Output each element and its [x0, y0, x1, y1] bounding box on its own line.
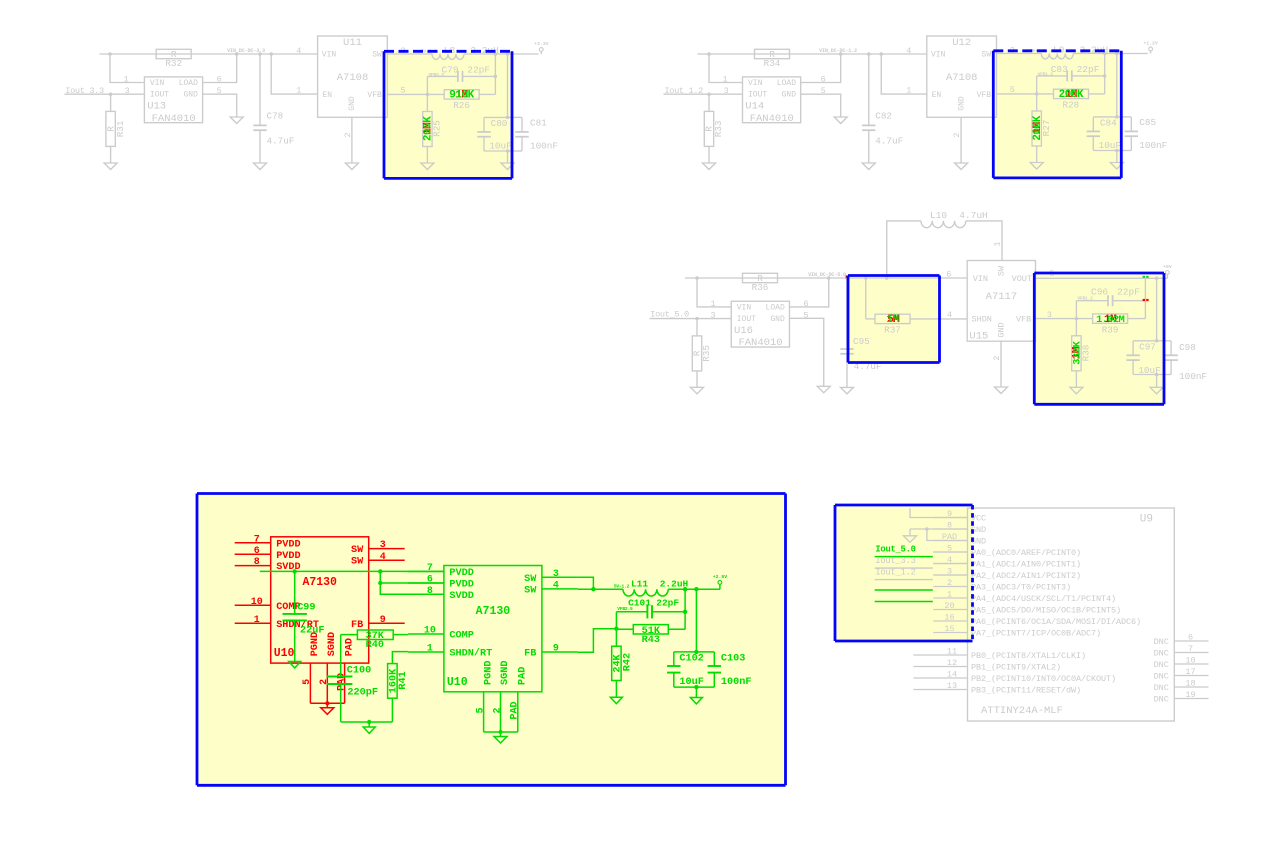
svg-text:VIN: VIN	[973, 274, 988, 284]
svg-text:GND: GND	[957, 96, 966, 111]
svg-text:PVDD: PVDD	[276, 551, 300, 562]
svg-text:A7130: A7130	[302, 576, 337, 589]
svg-text:1: 1	[710, 299, 715, 309]
U9 pin 5 PA0_(ADC0/AREF/PCINT0)	[933, 551, 967, 553]
svg-text:5: 5	[1010, 85, 1015, 95]
svg-text:C81: C81	[530, 118, 547, 129]
svg-text:10uF: 10uF	[489, 141, 511, 152]
ground below R42 (green)	[610, 697, 622, 703]
svg-text:PAD: PAD	[518, 667, 529, 685]
svg-text:C98: C98	[1179, 342, 1196, 353]
svg-text:2: 2	[952, 132, 962, 137]
svg-text:5V-1.2: 5V-1.2	[614, 584, 630, 590]
U9 pin 12 PB1_(PCINT9/XTAL2)	[914, 666, 968, 668]
svg-text:SW: SW	[997, 265, 1007, 276]
svg-text:1M: 1M	[886, 314, 899, 326]
svg-text:VFB1.2: VFB1.2	[1038, 72, 1054, 78]
IC U14 FAN4010 box	[743, 77, 801, 123]
svg-text:2: 2	[947, 578, 952, 588]
svg-text:SW: SW	[524, 585, 537, 596]
highlight box fill 2	[993, 51, 1121, 178]
wire SHDN pin 4	[910, 318, 967, 320]
bottom joint wire and ground (green)	[444, 566, 542, 692]
svg-text:PB1_(PCINT9/XTAL2): PB1_(PCINT9/XTAL2)	[971, 662, 1061, 672]
wire VCC pin 9	[910, 508, 968, 517]
capacitor C98 100nF	[1157, 340, 1172, 342]
svg-text:1: 1	[427, 644, 433, 655]
svg-text:FAN4010: FAN4010	[750, 113, 794, 125]
svg-text:PA4_(ADC4/USCK/SCL/T1/PCINT4): PA4_(ADC4/USCK/SCL/T1/PCINT4)	[971, 594, 1116, 604]
U9 pin 4 PA1_(ADC1/AIN0/PCINT1)	[933, 563, 967, 565]
svg-text:LOAD: LOAD	[179, 79, 198, 88]
ground at U13 pin 5	[230, 117, 243, 124]
ground below C82	[862, 163, 875, 170]
svg-text:U10: U10	[274, 647, 295, 660]
svg-text:PA5_(ADC5/DO/MISO/OC1B/PCINT5): PA5_(ADC5/DO/MISO/OC1B/PCINT5)	[971, 605, 1121, 615]
svg-text:4: 4	[380, 552, 386, 563]
svg-text:C97: C97	[1139, 342, 1156, 353]
svg-text:PA6_(PCINT6/OC1A/SDA/MOSI/DI/A: PA6_(PCINT6/OC1A/SDA/MOSI/DI/ADC6)	[971, 617, 1141, 627]
U15 GND pin wire	[1000, 341, 1002, 387]
svg-text:R28: R28	[1063, 100, 1080, 111]
svg-text:U9: U9	[1140, 514, 1153, 526]
diff markers green specks box4	[1143, 276, 1145, 278]
capacitor C80 10uF	[484, 116, 508, 118]
capacitor C101 22pF (green)	[684, 589, 686, 629]
U9 pin 8 GND	[933, 528, 967, 530]
svg-text:10: 10	[251, 597, 263, 608]
svg-text:FAN4010: FAN4010	[738, 337, 782, 349]
green wire at pin 1	[875, 601, 933, 603]
junction dots VIN rail 3.3	[108, 52, 112, 56]
svg-text:VFB3.3: VFB3.3	[428, 72, 444, 78]
svg-text:22pF: 22pF	[1117, 286, 1140, 297]
resistor R40 37K (green)	[393, 634, 408, 636]
wire VIN rail 1.2	[698, 53, 927, 55]
ground at U14 pin 5	[834, 117, 847, 124]
wire LOAD pin 6 to rail	[790, 278, 829, 307]
svg-text:VIN: VIN	[150, 79, 165, 88]
IC U15 A7117 box	[967, 261, 1035, 342]
wire Iout_1.2 to IOUT pin 3	[664, 93, 743, 95]
svg-text:C82: C82	[875, 111, 892, 122]
svg-text:R37: R37	[884, 325, 901, 336]
svg-text:11: 11	[947, 647, 957, 657]
svg-text:EN: EN	[322, 91, 332, 100]
svg-text:10: 10	[424, 626, 436, 637]
svg-text:1: 1	[296, 85, 301, 95]
svg-text:PA1_(ADC1/AIN0/PCINT1): PA1_(ADC1/AIN0/PCINT1)	[971, 559, 1081, 569]
svg-text:3: 3	[380, 540, 386, 551]
capacitor C95 4.7uF	[846, 278, 848, 349]
svg-text:R36: R36	[752, 282, 769, 293]
svg-text:22pF: 22pF	[656, 598, 679, 609]
svg-text:R39: R39	[1102, 324, 1119, 335]
wire EN pin	[271, 54, 317, 94]
svg-text:220pF: 220pF	[347, 688, 378, 699]
svg-text:PA3_(ADC3/T0/PCINT3): PA3_(ADC3/T0/PCINT3)	[971, 582, 1071, 592]
green FB wire	[578, 629, 617, 653]
ground below R35	[691, 387, 704, 394]
wire VFB	[997, 93, 1054, 95]
svg-text:8: 8	[254, 557, 260, 568]
highlight box fill 4	[1034, 273, 1164, 404]
highlight border box5 U10 A7130 move	[197, 492, 786, 495]
svg-text:Iout_5.0: Iout_5.0	[875, 544, 915, 554]
ground at U12 GND	[955, 163, 968, 170]
wire VIN rail 5.0	[685, 277, 967, 279]
svg-text:DNC: DNC	[1154, 671, 1169, 681]
svg-text:3: 3	[1047, 310, 1052, 320]
svg-text:+3.3V: +3.3V	[534, 41, 549, 47]
svg-text:EN: EN	[932, 91, 942, 100]
wire EN pin	[881, 54, 927, 94]
svg-text:R43: R43	[642, 635, 660, 646]
svg-text:U10: U10	[447, 676, 468, 689]
svg-text:L11: L11	[631, 579, 648, 590]
resistor R33 (R) vertical	[708, 94, 710, 111]
svg-text:VFB: VFB	[1016, 315, 1031, 325]
svg-text:VIN_DC-DC-1.2: VIN_DC-DC-1.2	[819, 48, 857, 54]
green SW wires	[578, 577, 594, 589]
svg-text:4.7uF: 4.7uF	[875, 136, 903, 147]
svg-text:6: 6	[946, 270, 951, 280]
capacitor C102 10uF (green)	[674, 651, 697, 653]
svg-text:VOUT: VOUT	[1012, 274, 1032, 284]
resistor R25 vertical	[426, 94, 428, 111]
green rail SVDD	[380, 583, 444, 594]
wire Iout_5.0 to IOUT pin 3	[650, 318, 732, 320]
capacitor C83 22pF	[1104, 54, 1106, 94]
ground below C78	[254, 163, 267, 170]
svg-text:R32: R32	[165, 58, 182, 69]
svg-text:22uF: 22uF	[300, 626, 324, 637]
ground at U11 GND	[345, 163, 358, 170]
svg-text:C103: C103	[721, 654, 745, 665]
svg-text:R33: R33	[713, 121, 724, 138]
capacitor C79 22pF	[494, 54, 496, 94]
svg-text:A7108: A7108	[946, 72, 978, 84]
svg-text:6: 6	[254, 546, 260, 557]
svg-text:SW: SW	[351, 557, 364, 568]
svg-text:Iout_3.3: Iout_3.3	[875, 556, 915, 566]
U9 pin 18 DNC	[1174, 686, 1208, 688]
svg-text:PAD: PAD	[344, 638, 355, 656]
svg-text:+2.5V: +2.5V	[713, 574, 728, 580]
wire SW to inductor L9	[997, 53, 1042, 55]
ground below C97/C98	[1156, 375, 1158, 388]
svg-text:PAD: PAD	[510, 701, 521, 719]
green rail PVDD2	[380, 571, 444, 583]
svg-text:A7130: A7130	[476, 605, 511, 618]
capacitor C84 10uF	[1093, 116, 1117, 118]
capacitor C96 22pF	[1144, 278, 1146, 318]
svg-text:5: 5	[821, 86, 826, 96]
svg-text:6: 6	[217, 75, 222, 85]
ground below R27	[1030, 163, 1043, 170]
capacitor C103 100nF (green)	[696, 651, 714, 653]
highlight box fill 6	[835, 505, 973, 641]
capacitor C85 100nF	[1117, 116, 1132, 118]
wire to U16 pin 1	[697, 278, 731, 307]
U9 pin 20 PA5_(ADC5/DO/MISO/OC1B/PCINT5)	[933, 609, 967, 611]
svg-text:FB: FB	[351, 620, 363, 631]
svg-text:3: 3	[125, 86, 130, 96]
wire GND pin 5 to ground	[801, 94, 841, 117]
wire VFB	[387, 93, 444, 95]
svg-text:GND: GND	[782, 91, 797, 100]
capacitor C81 100nF	[508, 116, 523, 118]
svg-text:A7117: A7117	[986, 291, 1018, 303]
svg-text:2: 2	[343, 132, 353, 137]
svg-text:IOUT: IOUT	[150, 91, 169, 100]
svg-text:100nF: 100nF	[530, 141, 558, 152]
svg-text:2: 2	[492, 707, 503, 713]
svg-text:14: 14	[947, 670, 957, 680]
resistor R27 vertical	[1036, 94, 1038, 111]
svg-text:R41: R41	[398, 671, 409, 689]
svg-text:5: 5	[475, 707, 486, 713]
svg-text:VIN: VIN	[322, 51, 337, 60]
svg-text:3: 3	[710, 311, 715, 321]
ground below R38	[1070, 387, 1083, 394]
highlight box fill 5	[197, 494, 786, 786]
ground below C99 (green)	[289, 662, 301, 668]
junction dots VIN rail 5.0	[695, 276, 699, 280]
highlight border box2 1.2V divider	[993, 49, 1121, 52]
ground at U9 GND	[904, 536, 917, 543]
svg-text:SGND: SGND	[500, 661, 511, 685]
svg-text:10uF: 10uF	[1099, 140, 1121, 151]
svg-text:PVDD: PVDD	[276, 539, 300, 550]
wire GND pin 5 to ground	[790, 318, 824, 386]
svg-text:PA7_(PCINT7/ICP/OC0B/ADC7): PA7_(PCINT7/ICP/OC0B/ADC7)	[971, 628, 1101, 638]
svg-text:5: 5	[400, 85, 405, 95]
svg-text:C78: C78	[267, 111, 284, 122]
svg-text:17: 17	[1185, 667, 1195, 677]
svg-text:3: 3	[553, 569, 559, 580]
diff marker red speck box3	[846, 276, 849, 278]
U9 pin 14 PB2_(PCINT10/INT0/OC0A/CKOUT)	[914, 677, 968, 679]
wire GND pin 8 with ground	[910, 528, 968, 530]
svg-text:1.02M: 1.02M	[1096, 314, 1124, 326]
wire SW to inductor L8	[387, 53, 432, 55]
svg-text:C100: C100	[347, 665, 371, 676]
svg-text:R34: R34	[764, 58, 781, 69]
svg-text:SHDN: SHDN	[972, 315, 992, 325]
U9 pin 2 PA3_(ADC3/T0/PCINT3)	[933, 586, 967, 588]
svg-text:C80: C80	[491, 118, 508, 129]
svg-text:VFB: VFB	[367, 91, 382, 100]
svg-text:VIN: VIN	[737, 304, 752, 313]
wire to U13 pin 1	[110, 54, 144, 83]
svg-text:332K: 332K	[1072, 341, 1084, 365]
IC U9 ATTINY24A-MLF box	[968, 508, 1175, 721]
green wire at pin 2	[875, 589, 933, 591]
svg-text:22pF: 22pF	[467, 64, 490, 75]
wire and resistor R37	[865, 278, 867, 319]
svg-text:PAD: PAD	[336, 673, 347, 691]
svg-text:U11: U11	[343, 37, 362, 49]
svg-text:SGND: SGND	[327, 632, 338, 656]
svg-text:GND: GND	[770, 315, 785, 324]
ground below R33	[703, 163, 716, 170]
ground compensation (green)	[363, 727, 375, 733]
svg-text:8: 8	[427, 586, 433, 597]
svg-text:VIN_DC-DC-5.0: VIN_DC-DC-5.0	[808, 272, 846, 278]
svg-text:5: 5	[302, 679, 313, 685]
svg-text:9: 9	[553, 644, 559, 655]
svg-text:19: 19	[1185, 690, 1195, 700]
resistor R34 (R)	[755, 49, 790, 58]
svg-text:7: 7	[254, 534, 260, 545]
svg-text:SW: SW	[524, 574, 537, 585]
svg-text:U14: U14	[745, 101, 764, 113]
svg-text:1: 1	[254, 615, 260, 626]
svg-text:4.7uH: 4.7uH	[959, 210, 988, 221]
IC U13 FAN4010 box	[144, 77, 202, 123]
svg-text:C95: C95	[853, 336, 870, 347]
inductor L11 2.2uH (green)	[623, 589, 668, 596]
power symbol +5V	[1166, 271, 1170, 275]
svg-text:200K: 200K	[423, 116, 435, 141]
inductor L8 2.2uH	[432, 54, 464, 59]
wire SW net to output caps (green)	[695, 589, 697, 652]
svg-text:DNC: DNC	[1154, 683, 1169, 693]
capacitor C99 22uF (green)	[294, 571, 296, 614]
svg-text:6: 6	[821, 75, 826, 85]
U9 pin 11 PB0_(PCINT8/XTAL1/CLKI)	[914, 654, 968, 656]
svg-text:7: 7	[427, 563, 433, 574]
svg-text:100nF: 100nF	[1139, 140, 1167, 151]
svg-text:7: 7	[1188, 644, 1193, 654]
svg-text:VIN_DC-DC-3.3: VIN_DC-DC-3.3	[227, 48, 265, 54]
svg-text:GND: GND	[348, 96, 357, 111]
U9 pin 3 PA2_(ADC2/AIN1/PCINT2)	[933, 574, 967, 576]
ground below R31	[104, 163, 117, 170]
resistor R43 51K (green)	[616, 628, 633, 630]
capacitor C82 4.7uF	[868, 54, 870, 125]
svg-text:DNC: DNC	[1154, 694, 1169, 704]
ground below caps	[507, 151, 509, 163]
U9 pin 6 DNC	[1174, 640, 1208, 642]
svg-text:4: 4	[553, 581, 559, 592]
capacitor C100 220pF (green)	[340, 635, 342, 677]
svg-text:1: 1	[993, 241, 1003, 246]
wire VOUT to +5V	[1036, 277, 1168, 279]
svg-text:200K: 200K	[1059, 89, 1084, 101]
U9 pin 16 PA6_(PCINT6/OC1A/SDA/MOSI/DI/ADC6)	[933, 620, 967, 622]
svg-text:R26: R26	[453, 100, 470, 111]
svg-text:100nF: 100nF	[721, 677, 752, 688]
svg-text:R31: R31	[115, 120, 126, 137]
svg-text:DNC: DNC	[1154, 637, 1169, 647]
svg-text:R35: R35	[701, 345, 712, 362]
svg-text:VFB1.2: VFB1.2	[1077, 296, 1093, 302]
svg-text:IOUT: IOUT	[737, 315, 756, 324]
svg-text:U12: U12	[952, 37, 971, 49]
inductor L10 4.7uH with wires	[887, 221, 921, 278]
resistor R28	[1054, 89, 1089, 98]
svg-text:SHDN/RT: SHDN/RT	[449, 648, 492, 660]
U9 pin 7 DNC	[1174, 652, 1208, 654]
ground at U16 pin 5	[817, 386, 830, 393]
svg-text:SW: SW	[351, 545, 364, 556]
svg-text:SW: SW	[372, 51, 382, 60]
svg-text:10: 10	[1185, 656, 1195, 666]
svg-text:PGND: PGND	[483, 661, 494, 685]
svg-text:C102: C102	[679, 654, 703, 665]
junction dots on SW out	[1103, 52, 1107, 56]
wire SW-out vertical to caps	[1116, 54, 1118, 117]
svg-text:U13: U13	[147, 101, 166, 113]
svg-text:C83: C83	[1051, 64, 1068, 75]
junction dots VIN rail 1.2	[707, 52, 711, 56]
svg-text:1: 1	[906, 85, 911, 95]
highlight border box6 ATtiny labels	[835, 504, 973, 507]
svg-text:COMP: COMP	[449, 631, 473, 642]
svg-text:VFB: VFB	[977, 91, 992, 100]
svg-text:15: 15	[944, 624, 954, 634]
svg-text:6: 6	[1188, 633, 1193, 643]
U9 pin 13 PB3_(PCINT11/RESET/dW)	[914, 689, 968, 691]
resistor R42 24K (green)	[615, 629, 617, 647]
svg-text:4: 4	[906, 46, 911, 56]
svg-text:LOAD: LOAD	[766, 304, 785, 313]
highlight box fill 1	[384, 51, 512, 178]
U9 pin 10 DNC	[1174, 663, 1208, 665]
highlight border box4 5.0V divider	[1034, 272, 1164, 275]
U12 GND pin wire	[960, 117, 962, 163]
svg-text:U15: U15	[969, 331, 988, 343]
svg-text:C85: C85	[1139, 117, 1156, 128]
svg-text:100nF: 100nF	[1179, 371, 1207, 382]
capacitor C78 4.7uF	[259, 54, 261, 125]
svg-text:PA2_(ADC2/AIN1/PCINT2): PA2_(ADC2/AIN1/PCINT2)	[971, 571, 1081, 581]
svg-text:L10: L10	[930, 210, 947, 221]
svg-text:GND: GND	[183, 91, 198, 100]
IC U12 A7108 box	[927, 36, 997, 117]
svg-text:C84: C84	[1100, 118, 1117, 129]
resistor R38 vertical	[1075, 319, 1077, 336]
svg-text:GND: GND	[996, 322, 1006, 337]
svg-text:3: 3	[724, 86, 729, 96]
svg-text:R42: R42	[622, 653, 633, 671]
svg-text:13: 13	[947, 681, 957, 691]
wire VFB 5.0	[1036, 318, 1093, 320]
power symbol +1.2V	[1150, 51, 1152, 54]
svg-text:DNC: DNC	[1154, 648, 1169, 658]
svg-text:12: 12	[947, 658, 957, 668]
svg-text:PVDD: PVDD	[449, 580, 473, 591]
svg-text:R40: R40	[366, 640, 384, 651]
svg-text:SW: SW	[981, 51, 991, 60]
svg-text:IOUT: IOUT	[748, 91, 767, 100]
svg-text:C99: C99	[297, 602, 315, 613]
green comp ground wire	[341, 721, 393, 723]
U9 pin 19 DNC	[1174, 698, 1208, 700]
svg-text:A7108: A7108	[337, 72, 369, 84]
IC U11 A7108 box	[318, 36, 388, 117]
resistor R35 (R) vertical	[696, 319, 698, 336]
U9 pin 1 PA4_(ADC4/USCK/SCL/T1/PCINT4)	[933, 597, 967, 599]
wire LOAD pin 6 to rail	[801, 54, 841, 83]
svg-text:PB0_(PCINT8/XTAL1/CLKI): PB0_(PCINT8/XTAL1/CLKI)	[971, 651, 1086, 661]
U9 pin 9 VCC	[933, 517, 967, 519]
svg-text:PA0_(ADC0/AREF/PCINT0): PA0_(ADC0/AREF/PCINT0)	[971, 548, 1081, 558]
svg-text:910K: 910K	[449, 90, 474, 102]
diff markers red specks box4	[1143, 299, 1145, 301]
